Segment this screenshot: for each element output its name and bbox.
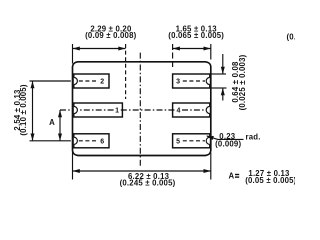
pad pin 4: [173, 103, 210, 117]
svg-text:6: 6: [100, 139, 104, 146]
pad pin 1: [74, 103, 123, 117]
dimension 6.22 extension lines: [73, 152, 211, 180]
svg-text:(0.009): (0.009): [215, 140, 241, 149]
note A = 1.27: [229, 171, 240, 180]
dimension 6.22 line: [73, 169, 211, 173]
svg-text:rad.: rad.: [246, 133, 261, 142]
dimension A line: [58, 110, 62, 141]
svg-text:(0.09 ± 0.008): (0.09 ± 0.008): [85, 31, 136, 40]
dimension 2.54 extension lines: [30, 81, 71, 141]
svg-text:(0.065 ± 0.005): (0.065 ± 0.005): [168, 31, 224, 40]
pad pin 3: [173, 74, 210, 88]
svg-text:A: A: [229, 171, 235, 180]
pad pin 5: [173, 134, 210, 148]
dimension 0.64 extension lines: [211, 74, 227, 88]
svg-text:(0.245 ± 0.005): (0.245 ± 0.005): [120, 179, 176, 188]
svg-text:(0.10: (0.10: [287, 32, 296, 41]
lead row 1-4 center line: [60, 109, 114, 111]
dimension 1.65 extension lines: [173, 44, 211, 68]
dimension 1.65 line: [173, 47, 211, 51]
package body outline: [73, 62, 211, 156]
svg-text:2: 2: [100, 79, 104, 86]
dimension 0.64 arrows: [221, 54, 225, 101]
svg-text:3: 3: [176, 79, 180, 86]
svg-text:5: 5: [176, 139, 180, 146]
dimension 2.29 line: [73, 47, 126, 51]
svg-text:A: A: [49, 118, 55, 127]
vertical center line: [139, 53, 141, 166]
radius 0.23 leader: [206, 136, 244, 140]
svg-text:(0.025 ± 0.003): (0.025 ± 0.003): [238, 54, 247, 110]
svg-text:(0.10 ± 0.005): (0.10 ± 0.005): [19, 84, 28, 135]
svg-text:(0.05 ± 0.005): (0.05 ± 0.005): [245, 176, 295, 185]
dimension 2.29 extension lines: [73, 44, 126, 99]
pad pin 6: [74, 134, 109, 148]
svg-text:1: 1: [115, 108, 119, 115]
pad pin 2: [74, 74, 109, 88]
svg-text:4: 4: [177, 108, 181, 115]
dimension 2.54 line: [31, 81, 35, 141]
